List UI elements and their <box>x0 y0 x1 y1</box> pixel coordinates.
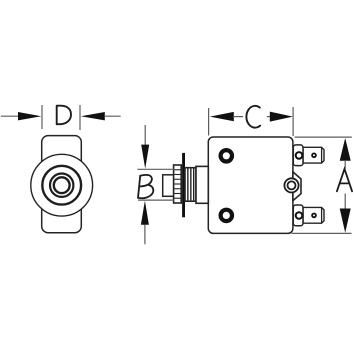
terminal top blade <box>303 147 324 163</box>
dimension A top extension line <box>295 136 352 138</box>
dimension B bottom arrowhead <box>141 201 149 225</box>
dimension A bottom segment <box>344 194 346 210</box>
dimension D right arrowhead <box>81 112 105 120</box>
rivet ring outer <box>284 178 298 192</box>
dimension D left extension line <box>41 105 43 129</box>
terminal bottom blade <box>303 207 324 223</box>
panel flange <box>182 153 185 217</box>
dimension B top leader <box>144 125 146 146</box>
front view bezel circle <box>31 154 93 216</box>
breaker body <box>208 137 293 233</box>
label C <box>246 106 260 128</box>
dimension D right leader <box>104 115 121 117</box>
dimension C left extension line <box>208 108 210 136</box>
thread lines <box>188 169 194 201</box>
mounting hole top <box>221 150 232 161</box>
rivet tab plate <box>293 172 301 201</box>
dimension D left leader <box>1 115 19 117</box>
terminal top base <box>293 145 303 166</box>
threaded bushing <box>185 168 196 202</box>
dimension C left arrowhead <box>210 112 234 121</box>
terminal bottom blade hole <box>312 214 316 218</box>
terminal bottom base hole <box>296 212 303 219</box>
mounting hole bottom <box>221 210 232 221</box>
terminal bottom blade fold line <box>321 207 323 223</box>
dimension B bottom leader <box>144 225 146 245</box>
terminal top base hole <box>296 152 303 159</box>
dimension A bottom extension line <box>292 232 352 234</box>
label B <box>138 175 153 198</box>
dimension B top extension line <box>137 168 174 170</box>
dimension C right arrowhead <box>270 112 293 122</box>
dimension A top arrowhead <box>340 138 351 161</box>
front view ring inner <box>54 177 70 193</box>
knurled nut <box>174 165 182 203</box>
dimension D right extension line <box>79 105 81 130</box>
terminal top blade fold line <box>321 147 323 163</box>
label D <box>57 106 71 125</box>
knurled nut hatch lines <box>174 170 180 199</box>
dimension B bottom extension line <box>138 199 174 201</box>
neck <box>196 166 208 203</box>
front view ring middle <box>50 174 73 197</box>
dimension D left arrowhead <box>18 112 41 120</box>
terminal top blade hole <box>312 153 316 157</box>
dimension A top segment <box>344 160 346 169</box>
rivet ring inner <box>288 181 296 189</box>
front view body <box>42 136 82 233</box>
label A <box>337 169 352 191</box>
dimension B top arrowhead <box>141 145 149 169</box>
dimension A bottom arrowhead <box>340 209 351 233</box>
dimension C left segment <box>233 116 243 118</box>
push button <box>163 175 174 197</box>
dimension C right extension line <box>292 107 294 136</box>
terminal bottom base <box>293 205 303 226</box>
front view ring outer <box>42 166 81 205</box>
dimension C right segment <box>267 116 275 118</box>
